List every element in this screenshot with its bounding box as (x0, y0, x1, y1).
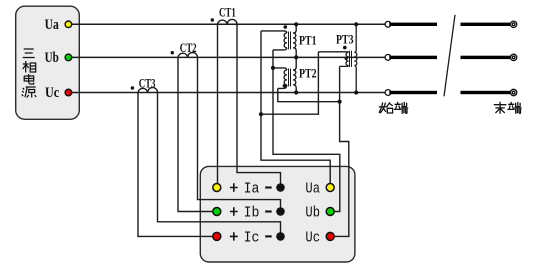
PT2 primary lead from Ub (293, 57, 296, 70)
PT2 secondary winding (left) (284, 70, 287, 85)
junction dot measured-Uc branch (338, 100, 342, 104)
terminal Ic- (276, 232, 285, 241)
line start terminal B (385, 55, 391, 61)
polarity dot CT3 (131, 86, 134, 89)
terminal Ib+ (213, 208, 221, 216)
PT1 primary winding (right) (293, 33, 296, 48)
wire CT2 left secondary drop to Ib+ (178, 57, 213, 211)
svg-text:Ib: Ib (244, 205, 260, 221)
conductor bar C end (461, 91, 511, 94)
label 始端 (379, 102, 408, 113)
terminal Ub source (65, 54, 72, 61)
始 (379, 103, 392, 113)
svg-text:CT2: CT2 (180, 40, 197, 55)
CT CT3 humps (138, 88, 158, 93)
PT3 secondary top lead (318, 51, 348, 54)
junction dot Uc-PT3 (354, 90, 358, 94)
transformer PT3 (318, 24, 357, 92)
端 (508, 102, 521, 113)
svg-text:PT1: PT1 (299, 32, 317, 47)
line end terminal C (510, 89, 516, 95)
terminal Ib- (276, 207, 285, 216)
末 (494, 102, 506, 113)
line end terminal B (510, 54, 516, 60)
三 (23, 49, 35, 58)
line start terminal A (385, 21, 391, 27)
PT2 secondary top lead (273, 68, 287, 70)
svg-text:PT3: PT3 (336, 31, 354, 46)
label + Ia - (230, 183, 238, 191)
PT3 secondary winding (left) (346, 52, 349, 65)
wire CT3 left secondary drop to Ic+ (138, 93, 213, 237)
wire CT3 right secondary drop to Ic- (158, 93, 281, 234)
wire CT2 right secondary drop to Ib- (198, 57, 281, 208)
PT2 primary lead to Uc (293, 85, 296, 93)
label + Ib - (230, 207, 238, 215)
line end terminal A (510, 21, 516, 27)
PT3 secondary bottom lead (340, 65, 349, 68)
svg-text:Uc: Uc (45, 85, 59, 101)
label 三相电源 (vertical) (22, 49, 37, 98)
wire Ua phase line (72, 23, 386, 25)
conductor bar B start (389, 56, 437, 59)
wire branch to PT3 sec top (261, 52, 318, 114)
wire measured Ub: PT1/PT2 centre to bottom box Ub (273, 50, 340, 212)
PT3 core (349, 51, 351, 67)
svg-text:CT1: CT1 (219, 5, 236, 20)
conductor bar C start (389, 91, 437, 94)
label + Ic - (230, 232, 238, 240)
polarity dot CT1 (211, 18, 214, 21)
terminal Uc source (65, 89, 72, 96)
junction dot Ua-PT3 (354, 22, 358, 26)
conductor bar A end (461, 23, 511, 26)
源 (22, 87, 37, 98)
PT3 primary lead to Uc (354, 66, 356, 93)
terminal Ua bottom box (326, 184, 334, 192)
CT CT1 humps (218, 19, 238, 24)
PT1 secondary top lead (261, 31, 287, 33)
wire CT1 left secondary drop to Ia+ (217, 24, 219, 184)
polarity dot PT1 (284, 25, 288, 29)
相 (23, 61, 36, 73)
PT1 primary lead to Ub (293, 48, 296, 58)
junction dot PT3 on Ub line (345, 57, 348, 60)
line break slash (444, 15, 455, 97)
svg-text:Ua: Ua (305, 181, 320, 197)
PT2 core (288, 69, 290, 87)
PT2 primary winding (right) (293, 70, 296, 85)
端 (394, 102, 407, 113)
svg-text:Uc: Uc (305, 230, 320, 246)
svg-text:Ub: Ub (45, 50, 59, 66)
junction dot Ua-PT1 (294, 22, 298, 26)
PT1 core (288, 32, 290, 50)
PT1 primary lead from Ua (293, 24, 296, 33)
svg-text:Ub: Ub (305, 205, 320, 221)
PT1 secondary bottom lead (273, 48, 287, 50)
transformer PT1 (261, 24, 296, 57)
PT1 secondary winding (left) (284, 33, 287, 48)
PT2 secondary bottom lead (278, 85, 287, 89)
svg-text:PT2: PT2 (299, 65, 317, 80)
conductor bar B end (461, 56, 511, 59)
instrument box (bottom) (200, 166, 355, 262)
terminal Uc bottom box (326, 232, 334, 240)
junction dot Ub-PT1/PT2 (294, 55, 298, 59)
wire measured Uc: PT2 sec bottom to junction (278, 88, 340, 101)
PT3 primary lead from Ua (354, 24, 356, 52)
junction dot PT1-PT2 centre tap (271, 66, 275, 70)
PT3 primary winding (right) (354, 52, 357, 65)
polarity dot PT2 (283, 84, 287, 88)
svg-text:Ua: Ua (45, 17, 60, 33)
svg-text:CT3: CT3 (139, 76, 156, 91)
wire CT1 right secondary drop to Ia- (237, 24, 281, 184)
junction dot Uc-PT2 (294, 90, 298, 94)
wire Ub phase line (72, 56, 386, 58)
terminal Ua source (65, 21, 72, 28)
terminal Ia+ (213, 184, 221, 192)
transformer PT2 (273, 57, 296, 92)
CT CT2 humps (178, 53, 198, 58)
wire Uc phase line (72, 92, 386, 94)
polarity dot CT2 (171, 51, 174, 54)
terminal Ia- (276, 183, 285, 192)
label 末端 (494, 102, 521, 113)
svg-text:Ic: Ic (244, 230, 260, 246)
junction dot measured-Ua branch (259, 112, 263, 116)
wire measured Uc: junction down to bottom box Uc (334, 66, 349, 236)
polarity dot PT3 (343, 46, 347, 50)
conductor bar A start (389, 23, 437, 26)
terminal Ub bottom box (326, 208, 334, 216)
wire measured Ua: PT1 sec top to bottom box Ua (261, 31, 330, 184)
电 (24, 74, 34, 84)
terminal Ic+ (213, 232, 221, 240)
svg-text:Ia: Ia (244, 181, 260, 197)
source box 三相电源 (16, 6, 80, 119)
line start terminal C (385, 90, 391, 96)
